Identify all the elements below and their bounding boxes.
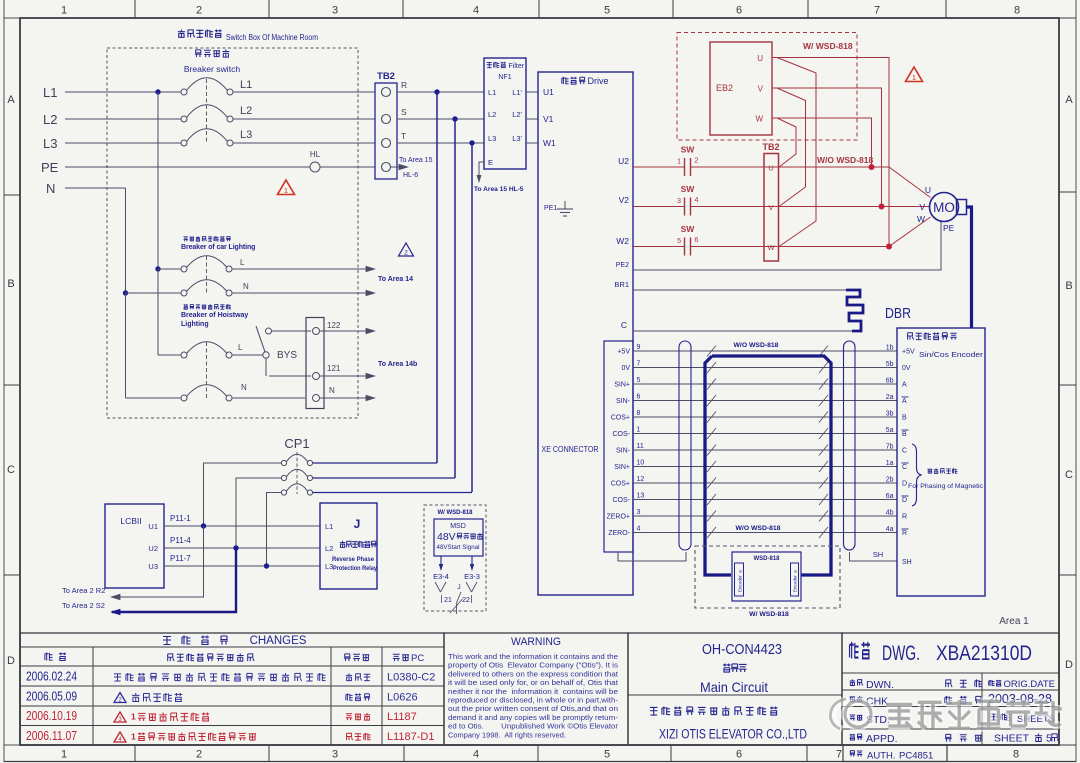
svg-text:1: 1 xyxy=(284,186,288,195)
svg-text:L1: L1 xyxy=(43,85,57,100)
contactor CP1 pole 1 xyxy=(281,460,286,465)
switch BYS xyxy=(263,352,269,358)
svg-text:XE CONNECTOR: XE CONNECTOR xyxy=(542,445,599,454)
svg-text:PE: PE xyxy=(41,160,59,175)
svg-text:Encoder a: Encoder a xyxy=(793,570,798,592)
svg-text:B: B xyxy=(7,278,14,290)
svg-text:2: 2 xyxy=(196,749,202,761)
arrow To Area 15 HL-6 xyxy=(391,166,404,168)
svg-text:W: W xyxy=(917,214,925,224)
TB2 terminal S xyxy=(382,115,391,124)
wire EB2 W right xyxy=(777,118,872,167)
svg-text:C: C xyxy=(902,448,907,455)
svg-text:PE2: PE2 xyxy=(616,262,629,269)
svg-text:DWN.: DWN. xyxy=(866,679,894,691)
wire hoistway L out xyxy=(232,354,263,356)
contactor CP1 pole 2 xyxy=(281,475,286,480)
wire encoder signal 1 xyxy=(633,433,897,435)
node U3 junction xyxy=(264,563,269,568)
svg-text:Protection Relay: Protection Relay xyxy=(333,565,378,572)
bottom ruler ticks xyxy=(134,745,136,762)
outer margin lines xyxy=(3,0,5,762)
breaker switch link (dashed) xyxy=(206,79,208,144)
svg-text:1: 1 xyxy=(912,73,916,82)
svg-text:4: 4 xyxy=(695,197,699,204)
svg-text:5: 5 xyxy=(637,377,641,384)
svg-text:PC: PC xyxy=(411,653,424,664)
warning triangle red 2 xyxy=(906,67,923,82)
wire car N xyxy=(126,292,182,294)
svg-text:S: S xyxy=(401,107,407,117)
svg-text:ZERO-: ZERO- xyxy=(608,530,630,537)
motor terminal box xyxy=(957,200,967,215)
wire PE xyxy=(65,166,310,168)
terminal block TB2 xyxy=(375,83,397,179)
wire N xyxy=(65,187,126,189)
svg-text:5: 5 xyxy=(604,5,610,17)
svg-text:A: A xyxy=(7,94,15,106)
wire CP1-3 left xyxy=(267,493,282,567)
svg-text:L: L xyxy=(240,258,245,267)
svg-text:D: D xyxy=(902,481,907,488)
twist marks row 8 xyxy=(707,461,716,472)
svg-text:neither it nor the informatio: neither it nor the information it contai… xyxy=(448,689,618,696)
change row 1 desc CJK xyxy=(114,674,121,681)
svg-text:10: 10 xyxy=(637,460,645,467)
svg-text:J: J xyxy=(354,517,361,531)
svg-text:L1': L1' xyxy=(512,88,522,97)
arrow car L to area 14 xyxy=(366,266,376,272)
svg-text:HL: HL xyxy=(310,150,321,159)
svg-text:L2: L2 xyxy=(43,112,57,127)
svg-text:6: 6 xyxy=(695,237,699,244)
car lighting breaker link xyxy=(206,256,208,294)
wire C xyxy=(633,330,852,332)
encoder title CJK xyxy=(908,333,914,340)
switch SW pins 3-4 xyxy=(684,198,686,216)
changes table lines xyxy=(20,646,444,648)
svg-text:12: 12 xyxy=(637,476,645,483)
svg-text:7b: 7b xyxy=(886,444,894,451)
svg-text:8: 8 xyxy=(637,410,641,417)
block J relay xyxy=(320,503,377,589)
svg-text:WARNING: WARNING xyxy=(511,636,561,648)
svg-text:SIN-: SIN- xyxy=(616,398,631,405)
arrow car N to area 14 xyxy=(366,290,376,296)
wire encoder signal 10 xyxy=(633,466,897,468)
svg-text:Sin/Cos Encoder: Sin/Cos Encoder xyxy=(919,350,984,359)
wire L3' to drive xyxy=(526,142,538,144)
hoistway breaker pole N xyxy=(181,395,187,401)
svg-text:property of Otis Elevator Com: property of Otis Elevator Company (“Otis… xyxy=(448,663,619,670)
right ruler ticks xyxy=(1059,191,1076,193)
svg-text:0V: 0V xyxy=(902,365,911,372)
wire BYS lower xyxy=(265,358,267,376)
node car L junction xyxy=(155,266,160,271)
wire W2 xyxy=(633,246,684,248)
change row 4 desc CJK xyxy=(138,732,145,740)
col header person CJK xyxy=(344,654,351,661)
svg-text:L2: L2 xyxy=(240,105,252,117)
wire EB2 W to TB2 U xyxy=(777,118,796,167)
auth box xyxy=(843,745,947,762)
svg-text:3b: 3b xyxy=(886,411,894,418)
wire U1 to J L1 xyxy=(164,525,320,527)
svg-text:SHEET: SHEET xyxy=(994,733,1030,745)
svg-text:L1: L1 xyxy=(488,88,496,97)
svg-text:+5V: +5V xyxy=(902,349,915,356)
phasing bracket xyxy=(912,444,922,506)
wire L1 drop to hoistway xyxy=(157,269,159,355)
terminal block hoistway xyxy=(306,318,324,409)
enclosure W/ WSD-818 dashed xyxy=(677,33,857,141)
TB2 terminal T xyxy=(382,139,391,148)
svg-text:L: L xyxy=(238,343,243,352)
svg-text:SW: SW xyxy=(681,224,696,234)
lamp HL xyxy=(310,162,320,172)
twist marks row 1 xyxy=(707,346,716,357)
breaker switch label CJK xyxy=(195,50,202,57)
cable shield right xyxy=(844,341,856,550)
svg-text:122: 122 xyxy=(327,321,341,330)
wire EB2 V right xyxy=(777,88,882,207)
svg-text:Main Circuit: Main Circuit xyxy=(700,679,768,695)
svg-text:T: T xyxy=(401,131,406,141)
wire 121 out xyxy=(320,375,371,377)
svg-text:E3-4: E3-4 xyxy=(433,572,449,581)
label XIZI CJK xyxy=(650,707,658,715)
svg-text:1: 1 xyxy=(61,5,67,17)
change row 2 marker xyxy=(114,693,126,703)
svg-text:6a: 6a xyxy=(886,493,894,500)
wire N out xyxy=(320,397,371,399)
svg-text:5a: 5a xyxy=(886,427,894,434)
svg-text:1: 1 xyxy=(637,427,641,434)
svg-text:OH-CON4423: OH-CON4423 xyxy=(702,641,782,658)
TB2 terminal R xyxy=(382,88,391,97)
svg-text:L3: L3 xyxy=(240,129,252,141)
wire encoder signal 3 xyxy=(633,515,897,517)
row APPD name CJK xyxy=(945,734,952,741)
wire EB2 U to TB2 W xyxy=(777,58,816,247)
svg-text:Area 1: Area 1 xyxy=(999,616,1029,627)
breaker switch pole L2 xyxy=(181,116,187,122)
svg-text:Encoder a: Encoder a xyxy=(738,570,743,592)
svg-text:ZERO+: ZERO+ xyxy=(606,514,630,521)
connector WSD-818 xyxy=(732,552,801,601)
changes table frame xyxy=(20,633,444,745)
svg-text:48V: 48V xyxy=(437,531,456,543)
svg-text:To Area 2 S2: To Area 2 S2 xyxy=(62,601,105,610)
svg-text:it will be used only for, or o: it will be used only for, or on behalf o… xyxy=(448,680,618,687)
node car N junction xyxy=(123,290,128,295)
row SHEET num CJK xyxy=(1035,733,1042,741)
svg-text:C: C xyxy=(1065,469,1073,481)
svg-text:0V: 0V xyxy=(621,365,630,372)
breaker of hoistway CJK xyxy=(184,304,188,309)
svg-text:W/ WSD-818: W/ WSD-818 xyxy=(803,41,853,51)
twist marks row 10 xyxy=(707,494,716,505)
svg-text:W/O WSD-818: W/O WSD-818 xyxy=(736,525,781,532)
svg-text:R: R xyxy=(902,530,907,537)
svg-text:21: 21 xyxy=(444,597,452,604)
change row 3 desc CJK xyxy=(138,713,146,721)
wire CP1-3 right xyxy=(313,492,472,494)
MSD arrow E3-4 xyxy=(440,556,442,567)
svg-text:2a: 2a xyxy=(886,394,894,401)
twist marks row 4 xyxy=(707,395,716,406)
svg-text:7: 7 xyxy=(874,5,880,17)
row SHEETS CJK xyxy=(991,714,997,720)
svg-text:W1: W1 xyxy=(543,138,556,148)
wire S to filter xyxy=(397,118,484,120)
svg-text:P11-4: P11-4 xyxy=(170,536,191,545)
terminal N xyxy=(313,395,320,402)
svg-text:6: 6 xyxy=(736,749,742,761)
svg-text:A: A xyxy=(1065,94,1073,106)
svg-text:7: 7 xyxy=(836,749,842,761)
wire EB2 V to TB2 V xyxy=(777,88,806,207)
wire CP1-2 left xyxy=(236,478,281,548)
svg-text:BR1: BR1 xyxy=(614,280,629,289)
svg-text:L1187: L1187 xyxy=(387,711,417,723)
row AUTH CJK xyxy=(850,751,855,757)
wire encoder signal 8 xyxy=(633,416,897,418)
wire BYS to 122 xyxy=(272,330,312,332)
block LCBII xyxy=(105,504,164,588)
node U2 junction xyxy=(233,545,238,550)
twist marks row 9 xyxy=(707,478,716,489)
svg-text:L3: L3 xyxy=(43,136,57,151)
TB2 terminal HL-6 xyxy=(382,163,391,172)
svg-text:A: A xyxy=(902,398,907,405)
J relay CJK xyxy=(340,541,346,547)
svg-text:4b: 4b xyxy=(886,510,894,517)
wire L1 in xyxy=(65,91,181,93)
svg-text:3: 3 xyxy=(677,198,681,205)
watermark logo and text xyxy=(845,701,871,727)
switch box title CJK xyxy=(178,29,185,37)
svg-text:ed to Otis. Unpublished: ed to Otis. Unpublished Work ©Otis Eleva… xyxy=(448,723,619,731)
car lighting breaker pole N xyxy=(181,290,187,296)
svg-text:5: 5 xyxy=(1046,733,1052,745)
MSD arrow E3-3 xyxy=(471,556,473,567)
svg-text:XIZI OTIS ELEVATOR CO.,LTD: XIZI OTIS ELEVATOR CO.,LTD xyxy=(659,727,807,742)
svg-text:WSD-818: WSD-818 xyxy=(753,556,780,562)
wire L1 out xyxy=(233,91,375,93)
svg-text:demand it and any copies will: demand it and any copies will be promptl… xyxy=(448,715,619,722)
svg-text:To Area 2 R2: To Area 2 R2 xyxy=(62,586,105,595)
svg-text:E3-3: E3-3 xyxy=(464,572,480,581)
svg-text:PE1: PE1 xyxy=(544,205,557,212)
node V2 EB2 junction xyxy=(879,204,885,210)
svg-text:2: 2 xyxy=(695,158,699,165)
wire N drop to hoistway xyxy=(125,293,127,398)
terminal 122 xyxy=(313,328,320,335)
WSD-818 inner left xyxy=(735,563,744,596)
wire CP1-2 right xyxy=(313,477,455,479)
svg-text:4: 4 xyxy=(473,749,479,761)
svg-text:SW: SW xyxy=(681,184,696,194)
svg-text:Drive: Drive xyxy=(588,76,609,86)
svg-text:5: 5 xyxy=(677,238,681,245)
svg-text:Lighting: Lighting xyxy=(181,321,209,328)
svg-text:J: J xyxy=(457,584,460,591)
change row 3 person CJK xyxy=(346,714,352,720)
drive box xyxy=(538,72,633,595)
svg-text:To Area 15: To Area 15 xyxy=(399,157,433,164)
svg-text:NF1: NF1 xyxy=(498,74,511,81)
car lighting breaker pole L xyxy=(181,266,187,272)
svg-text:ORIG.DATE: ORIG.DATE xyxy=(1003,679,1055,690)
svg-text:Breaker of car Lighting: Breaker of car Lighting xyxy=(181,244,255,251)
svg-text:2: 2 xyxy=(404,250,408,257)
svg-text:3: 3 xyxy=(332,749,338,761)
svg-text:L1: L1 xyxy=(325,522,333,531)
svg-text:PC4851: PC4851 xyxy=(899,751,933,762)
breaker of car lighting CJK xyxy=(184,237,188,241)
svg-text:9: 9 xyxy=(637,344,641,351)
MSD contact stubs xyxy=(435,582,441,592)
svg-text:2006.11.07: 2006.11.07 xyxy=(26,729,77,743)
svg-text:SIN-: SIN- xyxy=(616,448,631,455)
drive title CJK xyxy=(562,77,569,84)
wire encoder signal 4 xyxy=(633,532,897,534)
change row 4 marker xyxy=(114,732,126,742)
svg-text:8: 8 xyxy=(1014,5,1020,17)
wire encoder signal 11 xyxy=(633,449,897,451)
wire encoder signal 6 xyxy=(633,400,897,402)
wire U2 to motor xyxy=(889,167,931,198)
breaker switch pole L3 xyxy=(181,140,187,146)
row STD CJK xyxy=(850,715,855,720)
svg-text:8: 8 xyxy=(1013,749,1019,761)
svg-text:A: A xyxy=(902,382,907,389)
wire W2 to motor xyxy=(889,217,931,247)
svg-text:EB2: EB2 xyxy=(716,83,733,93)
hoistway breaker link xyxy=(206,342,208,399)
svg-text:6b: 6b xyxy=(886,378,894,385)
svg-text:6: 6 xyxy=(736,5,742,17)
svg-text:To Area 15 HL-5: To Area 15 HL-5 xyxy=(474,186,524,193)
svg-text:Switch Box Of Machine Room: Switch Box Of Machine Room xyxy=(226,32,318,42)
svg-text:D: D xyxy=(7,655,15,667)
svg-text:V: V xyxy=(919,202,925,212)
svg-text:1a: 1a xyxy=(886,460,894,467)
wire R drop to CP1 xyxy=(436,92,438,463)
svg-text:reproduced or disclosed, in wh: reproduced or disclosed, in whole or in … xyxy=(448,698,619,705)
svg-text:CP1: CP1 xyxy=(284,436,309,451)
svg-text:SH: SH xyxy=(902,559,912,566)
svg-text:For Phasing of Magnetic: For Phasing of Magnetic xyxy=(908,483,983,490)
wire L3 out xyxy=(233,142,375,144)
svg-text:LCBII: LCBII xyxy=(120,516,141,526)
wire To Area 2 R2 xyxy=(112,526,204,597)
wire R to filter xyxy=(397,91,484,93)
wire L2 in xyxy=(65,118,181,120)
twist marks row 2 xyxy=(707,362,716,373)
svg-text:R: R xyxy=(902,514,907,521)
wire encoder signal 7 xyxy=(633,367,897,369)
svg-text:SW: SW xyxy=(681,145,696,155)
svg-text:This work and the information: This work and the information it contain… xyxy=(448,654,618,661)
block EB2 xyxy=(710,42,772,135)
encoder box xyxy=(897,328,985,596)
svg-text:48VStart Signal: 48VStart Signal xyxy=(437,544,480,551)
row CHK name CJK xyxy=(945,696,952,704)
svg-text:COS-: COS- xyxy=(613,431,631,438)
svg-text:TB2: TB2 xyxy=(377,71,395,82)
twist marks row 7 xyxy=(707,445,716,456)
svg-text:B: B xyxy=(902,431,907,438)
wire V2 xyxy=(633,206,684,208)
switch SW pins 5-6 xyxy=(684,238,686,256)
contactor CP1 pole 3 xyxy=(281,490,286,495)
col header desc CJK xyxy=(168,654,174,661)
svg-text:MSD: MSD xyxy=(450,523,466,530)
node S junction xyxy=(452,116,457,121)
svg-text:N: N xyxy=(329,386,335,395)
motor cable thick xyxy=(967,207,972,328)
svg-text:SIN+: SIN+ xyxy=(614,464,630,471)
svg-text:W: W xyxy=(755,115,763,124)
cable shield left xyxy=(679,341,691,550)
phasing label CJK xyxy=(928,469,933,473)
hoistway breaker pole L xyxy=(181,352,187,358)
svg-text:COS+: COS+ xyxy=(611,481,630,488)
svg-text:5: 5 xyxy=(604,749,610,761)
title block lines xyxy=(842,672,1059,674)
svg-text:4: 4 xyxy=(637,526,641,533)
svg-text:Reverse Phase: Reverse Phase xyxy=(332,556,375,563)
svg-text:U: U xyxy=(768,164,773,173)
resistor DBR xyxy=(846,290,863,331)
svg-text:L2: L2 xyxy=(488,110,496,119)
svg-text:C: C xyxy=(621,320,627,330)
svg-text:V1: V1 xyxy=(543,114,554,124)
svg-text:V: V xyxy=(758,85,764,94)
wire E to HL-5 xyxy=(479,162,484,178)
svg-text:TB2: TB2 xyxy=(762,142,779,152)
terminal block TB2 red xyxy=(764,154,779,262)
svg-text:L0380-C2: L0380-C2 xyxy=(387,672,435,684)
wire CP1-1 right xyxy=(313,462,437,464)
svg-text:AUTH.: AUTH. xyxy=(867,751,896,762)
wire L1' to drive xyxy=(526,91,538,93)
enclosure MSD dashed xyxy=(424,505,486,611)
twist marks row 3 xyxy=(707,379,716,390)
left ruler ticks xyxy=(4,194,20,196)
svg-text:COS+: COS+ xyxy=(611,415,630,422)
svg-text:C: C xyxy=(902,464,907,471)
change row 3 marker xyxy=(114,712,126,722)
svg-text:DWG.: DWG. xyxy=(882,642,920,665)
svg-text:7: 7 xyxy=(637,361,641,368)
XE connector box xyxy=(604,341,633,552)
svg-text:PE: PE xyxy=(943,223,955,233)
svg-text:D: D xyxy=(902,497,907,504)
row APPD CJK xyxy=(850,734,855,740)
main title box xyxy=(628,633,842,745)
svg-text:COS-: COS- xyxy=(613,497,631,504)
svg-text:To Area 14b: To Area 14b xyxy=(378,361,417,368)
filter title CJK xyxy=(487,62,492,67)
svg-text:D: D xyxy=(1065,659,1073,671)
wire EB2 U right xyxy=(777,58,889,247)
switch SW pins 1-2 xyxy=(684,158,686,176)
svg-text:U: U xyxy=(757,54,763,63)
svg-text:SH: SH xyxy=(873,550,883,559)
